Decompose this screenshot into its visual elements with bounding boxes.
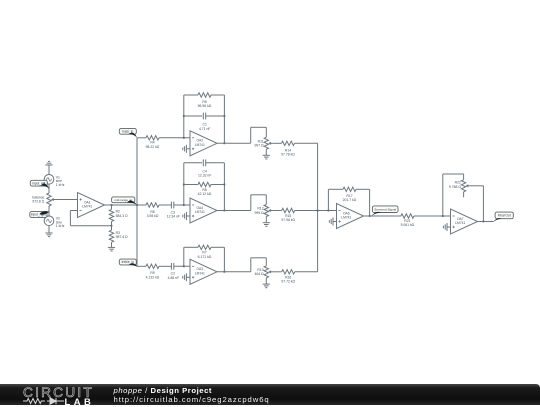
- svg-text:LM741: LM741: [82, 205, 92, 209]
- svg-text:999 Ω: 999 Ω: [254, 211, 264, 215]
- svg-text:LM741: LM741: [195, 210, 205, 214]
- svg-text:Summed Signal: Summed Signal: [374, 207, 396, 211]
- svg-text:97.96 kΩ: 97.96 kΩ: [281, 218, 295, 222]
- svg-text:1 kHz: 1 kHz: [56, 224, 65, 228]
- svg-text:98.22 kΩ: 98.22 kΩ: [146, 145, 160, 149]
- svg-text:Final Out: Final Out: [498, 214, 511, 218]
- svg-text:97.78 kΩ: 97.78 kΩ: [281, 153, 295, 157]
- svg-text:12.34 nF: 12.34 nF: [167, 215, 180, 219]
- svg-text:3.98 kΩ: 3.98 kΩ: [147, 214, 159, 218]
- svg-text:LM741: LM741: [455, 221, 465, 225]
- svg-text:4.132 kΩ: 4.132 kΩ: [146, 275, 160, 279]
- svg-text:997 Ω: 997 Ω: [254, 144, 264, 148]
- svg-text:201.7 kΩ: 201.7 kΩ: [343, 198, 357, 202]
- svg-text:42.12 kΩ: 42.12 kΩ: [198, 192, 212, 196]
- svg-text:LM741: LM741: [195, 271, 205, 275]
- svg-text:584.3 Ω: 584.3 Ω: [116, 214, 128, 218]
- svg-text:1 kHz: 1 kHz: [56, 183, 65, 187]
- svg-text:9.768 Ω: 9.768 Ω: [449, 185, 461, 189]
- svg-text:96.96 kΩ: 96.96 kΩ: [198, 104, 212, 108]
- svg-text:972.8 Ω: 972.8 Ω: [32, 199, 44, 203]
- svg-text:97.72 kΩ: 97.72 kΩ: [281, 280, 295, 284]
- svg-text:5.061 kΩ: 5.061 kΩ: [401, 223, 415, 227]
- svg-text:LM741: LM741: [341, 216, 351, 220]
- svg-text:464 Ω: 464 Ω: [254, 272, 264, 276]
- svg-text:4.86 nF: 4.86 nF: [168, 276, 180, 280]
- svg-text:12.32 nF: 12.32 nF: [198, 174, 211, 178]
- svg-text:LM741: LM741: [195, 143, 205, 147]
- svg-text:6.171 kΩ: 6.171 kΩ: [198, 255, 212, 259]
- svg-text:4.71 nF: 4.71 nF: [199, 127, 211, 131]
- svg-text:987.4 Ω: 987.4 Ω: [116, 235, 128, 239]
